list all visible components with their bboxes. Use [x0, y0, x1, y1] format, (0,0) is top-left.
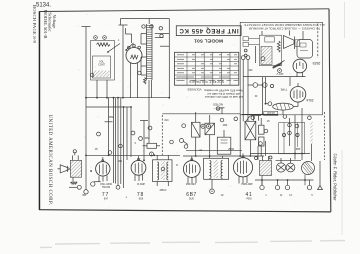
svg-text:17: 17 — [176, 165, 179, 167]
output transformer T3 — [260, 156, 272, 185]
node terminal above antenna coil — [73, 150, 76, 153]
V3 labels — [186, 183, 197, 200]
svg-text:TRANS: TRANS — [102, 186, 111, 189]
padder box — [217, 130, 231, 154]
terminal E4 — [307, 180, 311, 190]
field coil (hatched circle) — [302, 162, 315, 186]
wire: 115V line — [243, 72, 306, 76]
antenna horn — [58, 165, 70, 173]
osc coil box L2 — [192, 112, 201, 156]
svg-text:©John F. Rider, Publisher: ©John F. Rider, Publisher — [333, 153, 338, 201]
tone condenser lead with nodes — [288, 118, 292, 146]
svg-text:.02: .02 — [220, 195, 224, 197]
resistor R6 (boxed, vertical pair) — [259, 118, 265, 156]
svg-text:VOLTAGES: VOLTAGES — [187, 87, 201, 91]
voltage table cell figures — [177, 55, 239, 81]
wire: transformer secondary taps — [155, 34, 170, 47]
speaker assembly outline box (top right) — [240, 22, 322, 115]
voltage table — [175, 52, 239, 85]
osc coil box L3 — [205, 115, 215, 156]
svg-text:2ND DET: 2ND DET — [186, 183, 197, 186]
wire: antenna bus drop — [69, 155, 101, 189]
node: junction circle — [278, 69, 282, 73]
pilot lamp nodes — [253, 83, 274, 88]
rectifier tube 25Z5 — [293, 59, 307, 76]
wire: cluster drops to bus — [97, 69, 146, 98]
terminal E2 — [275, 180, 279, 190]
svg-text:5: 5 — [311, 195, 313, 197]
speaker cone — [284, 36, 300, 50]
rectifier tube V5 (84) — [126, 45, 142, 69]
wire: speaker assembly drops to chassis — [240, 108, 302, 160]
switch node below T2 — [210, 179, 215, 193]
svg-text:12: 12 — [280, 195, 283, 197]
wire: top bus y=18.5 — [121, 19, 170, 98]
svg-text:350: 350 — [82, 195, 87, 197]
power transformer T-P — [141, 19, 152, 144]
ballast coil (oval) — [273, 103, 294, 110]
resistor R5 diagonal — [273, 61, 285, 69]
wire: bottom-right bus — [255, 179, 314, 181]
junction dots — [85, 84, 306, 181]
node: padder trimmer — [150, 152, 154, 156]
coupling coil box L4 — [245, 121, 256, 156]
svg-text:IF AMP: IF AMP — [137, 183, 145, 186]
svg-text:UNITED AMERICAN BOSCH CORP.: UNITED AMERICAN BOSCH CORP. — [47, 115, 52, 206]
IF transformer T2 — [204, 156, 229, 179]
svg-text:1: 1 — [265, 195, 267, 197]
chassis hatched bar — [310, 121, 312, 161]
sheet border frame (left, top, right, bottom) — [39, 9, 331, 212]
wire: mid-right horizontal y=153.5 — [250, 141, 310, 160]
tube V1 77 osc-mod — [96, 157, 110, 182]
svg-text:TYPE: TYPE — [280, 87, 287, 91]
antenna coil L1 (iron core) — [70, 155, 81, 177]
scan noise (decorative) — [43, 13, 323, 207]
shield dashed line — [161, 115, 163, 155]
ground terminal (triangle) — [318, 161, 323, 190]
svg-text:and read on 1000 ohm voltmeter: and read on 1000 ohm voltmeter — [204, 95, 243, 99]
svg-text:115 V: 115 V — [276, 72, 283, 76]
trimmer caps near osc coil — [162, 107, 240, 128]
svg-text:PEN: PEN — [247, 198, 252, 201]
bleed-through smudges right — [342, 2, 345, 235]
svg-text:BOSCH PAGE 8-9: BOSCH PAGE 8-9 — [32, 5, 37, 44]
svg-text:8MF: 8MF — [296, 149, 301, 151]
svg-text:50M: 50M — [145, 138, 150, 140]
wire: mid-low horizontal right — [183, 155, 264, 157]
voltage table header row text — [189, 79, 224, 83]
scattered part-value labels — [82, 40, 313, 199]
electrolytic capacitor C11 — [286, 158, 295, 172]
svg-text:2MF: 2MF — [223, 125, 228, 127]
svg-text:NOTES: NOTES — [213, 102, 223, 106]
AC line label strip — [242, 111, 278, 115]
svg-text:13: 13 — [289, 195, 292, 197]
V4 labels — [241, 183, 253, 200]
svg-text:6D6: 6D6 — [139, 198, 144, 201]
svg-text:.1: .1 — [125, 197, 128, 199]
svg-text:25L6: 25L6 — [306, 98, 313, 102]
margin text MODEL 501-B / Schematic / Voltage — [43, 10, 57, 39]
wire: vertical buses center — [114, 98, 132, 188]
node: junction left of ballast — [268, 102, 272, 106]
volume control inner box R2 — [93, 56, 111, 78]
svg-text:.25: .25 — [266, 121, 270, 123]
speaker box header text — [244, 23, 324, 30]
svg-text:25M: 25M — [109, 117, 114, 119]
wire: table-right vertical pair down to coupling unit — [241, 46, 265, 121]
svg-text:Voltage: Voltage — [52, 15, 57, 29]
V1 labels — [100, 183, 112, 201]
tube V4 41 output — [233, 154, 252, 184]
svg-text:200: 200 — [249, 70, 254, 72]
wire: bus y=150.3 — [180, 139, 243, 151]
svg-text:INT FREQ 455 KC: INT FREQ 455 KC — [179, 27, 239, 34]
resistor R3 — [143, 143, 161, 148]
wire: ground lead with T top, x=123 — [119, 25, 128, 98]
svg-text:TO CHASSIS — VOLUME CONTROL AT: TO CHASSIS — VOLUME CONTROL AT MAXIMUM — [248, 27, 320, 31]
svg-text:DUO: DUO — [189, 198, 194, 201]
tuning grid-lead stub A — [105, 98, 113, 156]
tube V2 78 IF amp — [131, 156, 146, 181]
notes paragraph under table — [187, 87, 243, 111]
svg-text:MODEL 501: MODEL 501 — [194, 37, 223, 43]
svg-text:250M: 250M — [228, 149, 234, 151]
wire: antenna lead with T top, x=86 — [82, 27, 91, 156]
svg-text:AC-DC: AC-DC — [267, 111, 275, 115]
speaker field housing (rounded) — [297, 40, 313, 59]
wire: can top bus — [255, 156, 302, 160]
cathode resistor parts below V1 — [70, 177, 95, 194]
svg-text:25Z5: 25Z5 — [313, 61, 321, 65]
svg-text:.05: .05 — [94, 149, 98, 151]
svg-text:.1: .1 — [118, 40, 121, 42]
svg-text:5134.: 5134. — [36, 3, 51, 9]
transformer top terminals — [142, 25, 163, 38]
INT FREQ 455 KC label box — [176, 26, 241, 36]
terminal strip on speaker box edge — [243, 37, 260, 57]
svg-text:.5: .5 — [134, 143, 137, 145]
power plug P1 — [247, 116, 262, 122]
svg-text:AVC: AVC — [164, 119, 169, 122]
IF transformer T1 — [153, 155, 173, 186]
svg-text:455: 455 — [118, 161, 123, 163]
bleed-through smudges bottom — [40, 241, 345, 248]
terminal E1 — [260, 180, 264, 190]
ground node on bus — [116, 185, 120, 189]
tube V3 6B7 2nd det — [183, 157, 200, 184]
node terminals above cluster — [94, 36, 107, 40]
svg-text:ALL VOLTAGES MEASURED FROM SOC: ALL VOLTAGES MEASURED FROM SOCKET CONTAC… — [244, 23, 324, 27]
svg-text:455KC: 455KC — [159, 190, 166, 192]
wire: mid-low horizontal bus — [86, 154, 180, 156]
terminal E3 — [285, 180, 289, 190]
output transformer sub-box in speaker assembly — [260, 35, 282, 65]
svg-text:MODEL 501-B: MODEL 501-B — [43, 10, 48, 39]
dashed shield line right — [324, 112, 326, 160]
extra circled part numbers — [90, 73, 299, 171]
wires inside speaker assembly — [248, 31, 304, 115]
wire: horizontal bus y=97.7 — [85, 97, 169, 99]
output section box outline — [279, 123, 305, 154]
electrolytic capacitor C10 — [276, 158, 285, 172]
svg-text:30: 30 — [255, 96, 258, 98]
wire: horizontal bus y=107 — [86, 106, 131, 108]
resistor-switch cluster box (line switch / resistor R1) — [91, 28, 134, 80]
svg-text:PWR AMP: PWR AMP — [241, 183, 253, 186]
output tube 25L6 — [290, 87, 306, 107]
circled part numbers (middle) — [97, 126, 152, 140]
svg-text:6A7: 6A7 — [104, 198, 109, 201]
svg-text:CONT: CONT — [98, 64, 105, 67]
svg-text:Schematic: Schematic — [48, 12, 53, 31]
V2 labels — [137, 183, 146, 201]
tuning grid-lead stub B — [140, 121, 148, 161]
svg-text:SOCKET VOLTAGES: SOCKET VOLTAGES — [189, 79, 224, 83]
circled part numbers (mid right row) — [234, 115, 311, 121]
